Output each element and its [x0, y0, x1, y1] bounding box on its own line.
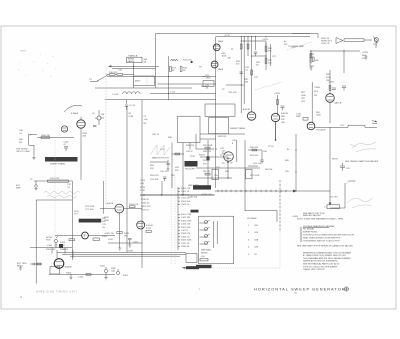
resistor chain +225V column [265, 41, 267, 70]
svg-text:SWP: SWP [296, 116, 301, 118]
wire vertical drop 3 [247, 37, 249, 56]
capacitor C86 [332, 88, 336, 90]
timing range label box [127, 57, 143, 63]
svg-text:470K: 470K [206, 78, 211, 80]
svg-text:SEE MECHANICAL PARTS LIST A: SEE MECHANICAL PARTS LIST ALSO [303, 263, 340, 266]
cluster left of tube [301, 92, 306, 103]
labels lower drops [245, 77, 259, 84]
svg-text:C 1/4: C 1/4 [170, 92, 176, 94]
extra center labels c [218, 136, 237, 145]
svg-text:SWEEP TIMING: SWEEP TIMING [230, 128, 246, 130]
wire second column [270, 44, 272, 66]
labels under rail [141, 199, 151, 212]
svg-text:F: F [84, 234, 86, 238]
wire from F right [88, 235, 115, 237]
wire center h2 [196, 148, 214, 150]
connector P1 [373, 37, 379, 43]
label above resistors [109, 70, 123, 74]
wire delay line out [364, 39, 372, 41]
svg-text:R101 47K: R101 47K [181, 188, 191, 190]
svg-text:+100V 1W: +100V 1W [104, 233, 114, 235]
svg-text:C114: C114 [140, 180, 146, 182]
heavy rail y195 left of bus [140, 194, 215, 196]
svg-text:R108 27K: R108 27K [181, 233, 191, 235]
label C45 near V5 [222, 151, 227, 156]
svg-text:B 6DJ8: B 6DJ8 [281, 113, 289, 115]
extra center labels a [152, 134, 195, 153]
svg-text:270K: 270K [140, 190, 145, 192]
svg-text:REGIS: REGIS [201, 253, 208, 255]
heading voltage readings [303, 225, 334, 228]
ground symbol right bracket [310, 66, 313, 70]
box C left [178, 116, 201, 142]
resistor R26 box [265, 46, 267, 52]
relay inner dashes [146, 76, 148, 86]
ground under 225 labels [365, 55, 368, 59]
capacitor C1 below box top [125, 100, 128, 110]
vertical inside box A [167, 56, 169, 100]
ground under pot [55, 243, 58, 248]
wire x73 stub [72, 250, 74, 258]
svg-text:R45 100K: R45 100K [203, 145, 213, 147]
resistor left low [37, 263, 41, 265]
svg-text:100K: 100K [104, 220, 109, 222]
svg-text:27K: 27K [203, 164, 207, 166]
svg-text:R124: R124 [146, 228, 152, 230]
text rows right of dark bar [102, 218, 107, 229]
resistor on V6 plate [130, 206, 136, 208]
dashed annotation to sweep [287, 42, 312, 50]
svg-text:C53 .001: C53 .001 [150, 179, 159, 181]
bus hash marks [218, 190, 286, 192]
resistor dark square mid col [206, 156, 209, 160]
svg-text:C121: C121 [133, 242, 139, 244]
svg-text:10K: 10K [245, 82, 249, 84]
svg-text:2.2M: 2.2M [129, 116, 134, 118]
resistor R60 [277, 100, 279, 105]
tube V6 [115, 204, 124, 213]
wire vertical drop 4 [251, 37, 253, 112]
svg-text:R49 22K: R49 22K [186, 145, 195, 147]
tube V2b small [61, 126, 67, 132]
svg-text:SWEEP RUNS: SWEEP RUNS [303, 232, 318, 234]
node dot left [29, 134, 30, 135]
resistor R21 on drop lines [240, 44, 242, 49]
dark box holdoff [185, 161, 198, 167]
coil R16 zigzag [171, 59, 178, 61]
dashed vertical pair 2 [174, 177, 176, 265]
labels right of chain [268, 48, 277, 65]
legend box [199, 216, 234, 264]
text block ext horiz [17, 149, 30, 154]
wire vertical drop 1 [240, 37, 242, 113]
wire x236.8 [236, 140, 238, 162]
label cluster right end [362, 52, 369, 60]
horiz pos cluster pot [54, 236, 58, 243]
svg-text:C118 .001: C118 .001 [188, 197, 198, 199]
pot cluster under bus 1 [104, 267, 107, 276]
pencil sketch right [350, 142, 376, 152]
svg-text:1M: 1M [314, 95, 317, 97]
component below arrow [324, 207, 328, 209]
capacitor C121 [128, 239, 132, 243]
svg-text:+350V: +350V [314, 87, 321, 89]
tube V1a 6AU8 [213, 44, 220, 51]
extra cap e [166, 160, 169, 168]
svg-text:C77 .005: C77 .005 [85, 209, 94, 211]
svg-text:A 6AU8: A 6AU8 [65, 266, 73, 269]
extra wire vb [195, 134, 197, 149]
wire step waveform rail [315, 125, 377, 127]
wire box A inner top rail [216, 36, 310, 38]
dark label box gate out [193, 185, 211, 189]
svg-text:1M: 1M [19, 142, 22, 144]
wire x344 down [343, 51, 345, 73]
tube V3a [247, 112, 255, 120]
faint scan speckle rows upper left [18, 50, 56, 77]
svg-text:C107 8: C107 8 [181, 230, 189, 232]
svg-text:470K: 470K [326, 77, 331, 79]
diode symbol row 1 [200, 220, 210, 224]
wire tube2 cathode bus [119, 213, 121, 246]
pin stub ticks [178, 188, 180, 246]
dashed annotation 2 [255, 82, 282, 90]
svg-text:+225V: +225V [362, 52, 369, 54]
diode symbol row 3 [200, 234, 210, 238]
svg-text:A. TIMING SWITCH B. SWEEP GE: A. TIMING SWITCH B. SWEEP GEN CKT NO. [303, 254, 347, 257]
labels left of gate box [140, 180, 146, 192]
node dot on rail [133, 66, 134, 67]
rail y76.5 inside box A [107, 76, 216, 78]
resistor on rail [86, 273, 91, 275]
dark square knot [59, 244, 63, 248]
legend resistor [200, 259, 208, 261]
wire connector stub down [375, 44, 377, 48]
pot cluster under bus 2 [116, 269, 119, 275]
svg-text:100K: 100K [301, 95, 306, 97]
svg-text:100K: 100K [316, 115, 321, 117]
numbered note 2 [300, 231, 318, 234]
note line 1 [303, 212, 325, 217]
wire rail y139 [200, 138, 216, 140]
horiz pos labels [46, 237, 66, 247]
cluster right end rail [67, 184, 72, 189]
wire from F left [55, 235, 82, 237]
label TP mid [222, 89, 237, 94]
svg-text:R53 4.7K: R53 4.7K [150, 175, 159, 177]
ground pot cluster [105, 276, 108, 280]
capacitor clutter b [260, 160, 263, 164]
TP component left [35, 181, 38, 191]
svg-text:SEE TIMING CHART FOR VALUES: SEE TIMING CHART FOR VALUES [345, 160, 379, 163]
delay line input text block [321, 38, 333, 45]
capacitor c50 [163, 177, 167, 181]
wire parallel rail y68.6 [112, 68, 156, 70]
rail y168 [196, 167, 260, 169]
svg-text:R165: R165 [100, 266, 106, 268]
svg-text:R154 1M: R154 1M [46, 249, 55, 251]
node dots x296 [295, 149, 296, 172]
svg-text:SAWTOOTH OUT: SAWTOOTH OUT [152, 157, 170, 160]
resistor r55 [205, 173, 210, 175]
labels below drops [236, 61, 261, 72]
label cluster mid drops [222, 49, 234, 60]
tube V2 [77, 117, 85, 128]
junction dots box A rails [168, 76, 205, 94]
tube circled F [82, 232, 89, 239]
labels left column tubes [104, 217, 114, 241]
small comp left mid [303, 118, 308, 121]
svg-text:TYPE 545 OSCILLOSCOPE SWEEP: TYPE 545 OSCILLOSCOPE SWEEP [303, 266, 338, 268]
tube V7 [137, 221, 145, 229]
svg-text:TP47: TP47 [190, 156, 196, 158]
wire center v2 [227, 157, 229, 178]
wire above tube V89 [329, 70, 331, 94]
resistor in bracket [313, 57, 315, 62]
node dots on y195 [143, 194, 183, 195]
arrowhead left [108, 65, 111, 67]
svg-text:R77 220K: R77 220K [85, 206, 95, 208]
wire bus x127 [126, 106, 128, 252]
svg-text:6AL5 B: 6AL5 B [335, 102, 342, 105]
svg-text:R45 B: R45 B [199, 155, 205, 157]
resistor R120 [117, 232, 122, 234]
input text left [17, 263, 27, 268]
box D right edge [344, 183, 346, 208]
wire bus x142 [141, 100, 143, 268]
labels pot cluster [100, 266, 129, 278]
+100V bus line 1 [57, 251, 186, 253]
node dots center [207, 148, 228, 178]
wire rail y134 [200, 133, 245, 135]
inductor L5 coil [123, 92, 141, 94]
resistor vertical inside box A [170, 67, 172, 72]
pencil script note [44, 192, 80, 198]
circled plus after title [344, 287, 348, 291]
svg-text:RANGE AS NOTED ON SCHEMATIC: RANGE AS NOTED ON SCHEMATIC [303, 260, 338, 263]
svg-text:47 TP: 47 TP [225, 35, 231, 37]
tube V1b 6AU8 [211, 61, 218, 68]
node dot V3b [275, 139, 277, 141]
arrowhead to dark bar [182, 267, 186, 269]
svg-text:R114: R114 [140, 187, 146, 189]
wire switch lead [90, 81, 98, 83]
arrows right end [372, 121, 377, 124]
vertical pin bus x178 [177, 187, 179, 250]
svg-text:R60 47K: R60 47K [250, 147, 259, 149]
svg-text:R140 1M: R140 1M [41, 135, 50, 137]
long resistor R70 [48, 180, 69, 182]
svg-text:R46 47K: R46 47K [203, 151, 212, 153]
resistor cluster bottom [46, 249, 69, 251]
label R45 B [199, 155, 205, 157]
box D bottom [330, 207, 345, 209]
extra ground f [167, 168, 170, 172]
svg-text:R103 10K: R103 10K [181, 201, 191, 203]
label cluster B+ right [284, 41, 296, 49]
svg-text:V4 12AU7: V4 12AU7 [316, 129, 326, 132]
svg-text:56K: 56K [83, 136, 87, 138]
labels mid [85, 206, 95, 211]
labels above bottom tube [47, 245, 66, 251]
svg-text:C105 180: C105 180 [181, 217, 191, 219]
svg-text:C117 12: C117 12 [141, 210, 150, 212]
wire x103.7 [103, 181, 105, 214]
svg-text:R118 2.7K: R118 2.7K [202, 194, 212, 196]
diode symbol row 2 [200, 227, 210, 231]
dotted line right of dark bar [212, 267, 280, 269]
capacitor C9 stub [93, 126, 96, 127]
svg-text:NOTE: ⊕ AND SEE DIAGRAM VOLTAG: NOTE: ⊕ AND SEE DIAGRAM VOLTAGE + WFM [297, 217, 343, 220]
svg-text:100K: 100K [60, 245, 65, 247]
wire x208 column [207, 140, 209, 186]
resistor R11 row [117, 74, 123, 76]
wire V6 plate right [124, 208, 142, 210]
svg-text:22K: 22K [362, 58, 366, 60]
svg-text:R107 56K: R107 56K [181, 227, 191, 229]
svg-text:C106 .001: C106 .001 [181, 224, 191, 226]
node dots drops [241, 40, 253, 56]
labels right mid cluster [316, 112, 321, 117]
tube V161 [54, 259, 64, 269]
resistor clutter a [252, 149, 257, 151]
svg-text:B 6AU8: B 6AU8 [71, 112, 79, 115]
svg-text:WIRE SIDE TIMING UNIT: WIRE SIDE TIMING UNIT [36, 290, 78, 294]
small components left of tube [30, 263, 42, 265]
ground 2 below tubes [128, 242, 131, 247]
wire center v1 [207, 149, 209, 157]
resistor r45 [205, 147, 210, 149]
numbered note 3 [300, 234, 354, 237]
tall component box right [246, 169, 252, 179]
wire stubs above tube [52, 248, 65, 259]
junction dots on top rail [241, 36, 267, 37]
labels left of main bus [206, 75, 211, 90]
wire y243 link [108, 242, 142, 244]
svg-text:R125 47K: R125 47K [129, 204, 139, 206]
wire y85 link [226, 84, 244, 86]
tube V5 [224, 152, 234, 162]
resistor R27 box [265, 58, 267, 64]
svg-text:THIS DIAGRAM APPLIES WITH SERI: THIS DIAGRAM APPLIES WITH SERIAL NUMBER [303, 257, 351, 260]
reference paragraph [303, 251, 352, 271]
rail y84 inside box A [158, 83, 216, 85]
svg-text:62B: 62B [255, 247, 259, 249]
svg-text:SWEEP TIMING: SWEEP TIMING [50, 164, 66, 166]
center clutter labels row1 [203, 145, 225, 157]
wire center h4 [196, 177, 232, 179]
svg-text:22K: 22K [150, 168, 154, 170]
resistor vertical 2 inside box A [180, 67, 182, 72]
resistor R10 row [110, 74, 116, 76]
resistor R81 [310, 54, 312, 59]
relay box [134, 76, 155, 86]
svg-text:L5 HF: L5 HF [113, 94, 119, 96]
svg-text:R106 470K: R106 470K [181, 220, 192, 222]
hashed bus y191 [215, 190, 331, 192]
resistor R124 [146, 231, 151, 233]
pencil signature [347, 198, 373, 208]
svg-text:TO CRT: TO CRT [330, 197, 338, 199]
wire top right rail [292, 34, 318, 39]
dark bar bottom right [186, 266, 199, 269]
svg-text:+225V: +225V [262, 39, 269, 41]
box D bottom left [245, 210, 277, 212]
svg-text:C108 .05: C108 .05 [181, 236, 190, 238]
bracket component right [310, 54, 314, 66]
svg-text:C109 .01: C109 .01 [181, 243, 190, 245]
capacitor C23 [254, 52, 257, 56]
svg-text:R167: R167 [123, 275, 129, 277]
wire grid rail y137.5 [38, 137, 75, 139]
wire x162 branch [161, 181, 163, 195]
label right of tube V7 [146, 225, 154, 230]
svg-text:SWP: SWP [16, 188, 21, 190]
label TIMING RANGE [128, 59, 135, 63]
svg-text:C63 .001: C63 .001 [253, 163, 262, 165]
wire resistor row [107, 74, 134, 76]
svg-text:R102 1K: R102 1K [181, 194, 190, 196]
numbered note 4 [300, 237, 341, 240]
legend inner vertical 2 [216, 221, 218, 244]
clutter labels in box D [250, 146, 290, 177]
arrowhead bus drop [329, 203, 332, 206]
center clutter labels row3 [203, 171, 230, 177]
labels left mid cluster [296, 114, 302, 119]
svg-text:INPUT CONN: INPUT CONN [17, 151, 30, 153]
wire x183 vertical [182, 143, 184, 196]
diode symbol row 4 [200, 241, 210, 245]
svg-text:R119: R119 [104, 217, 110, 219]
wire x277 down [277, 95, 279, 115]
box D left leg [244, 140, 246, 211]
svg-text:TRIGGERING SWITCH TO AUTO POS: TRIGGERING SWITCH TO AUTO POS [303, 240, 340, 243]
box E left edge [35, 200, 37, 284]
svg-text:R109 100K: R109 100K [181, 240, 192, 242]
dark box sweep timing switch [45, 157, 78, 162]
svg-text:C119: C119 [108, 239, 114, 241]
wire label box stem [133, 63, 135, 88]
svg-text:18K: 18K [124, 236, 128, 238]
svg-text:R55 1K: R55 1K [203, 171, 211, 173]
svg-text:TO DLY: TO DLY [348, 181, 356, 183]
box E top edge [36, 199, 72, 201]
gate text block rows [188, 184, 212, 199]
dark bar mid-left [79, 219, 102, 223]
node dots on chain [265, 43, 266, 44]
svg-text:TO: TO [89, 79, 92, 81]
small label box in box A bottom [203, 81, 214, 87]
extra center labels b [150, 156, 196, 181]
delay line element [344, 39, 364, 42]
dotted vertical right [279, 233, 281, 269]
svg-text:NO SIGNAL: NO SIGNAL [303, 228, 315, 231]
svg-text:R61 10K: R61 10K [250, 155, 259, 157]
wire center h3 [200, 156, 228, 158]
triangle amp symbol [336, 38, 343, 44]
+100V bus line 2 [62, 253, 186, 255]
labels inside box A [172, 67, 202, 73]
wire clutter v a [261, 150, 263, 160]
capacitor C140 sym [64, 147, 68, 152]
svg-text:6AU8: 6AU8 [218, 40, 224, 43]
dark bar under legend [196, 265, 212, 268]
labels left column [19, 130, 24, 144]
extra wire va [189, 143, 191, 150]
svg-text:C50 .01: C50 .01 [160, 171, 168, 173]
junction dots y85 [241, 84, 242, 85]
capacitor C85 [342, 86, 346, 91]
